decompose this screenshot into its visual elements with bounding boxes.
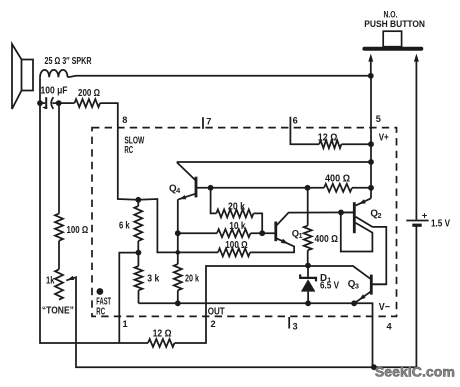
svg-text:6 k: 6 k <box>119 221 130 232</box>
svg-text:1: 1 <box>299 232 303 240</box>
svg-text:1k: 1k <box>46 275 55 286</box>
svg-text:+: + <box>422 210 428 221</box>
svg-text:400 Ω: 400 Ω <box>325 173 350 184</box>
svg-text:1.5 V: 1.5 V <box>431 218 450 229</box>
svg-text:PUSH BUTTON: PUSH BUTTON <box>364 19 425 29</box>
svg-text:10 k: 10 k <box>229 221 246 232</box>
svg-text:6: 6 <box>293 116 298 126</box>
svg-text:12 Ω: 12 Ω <box>318 132 338 143</box>
svg-text:100 Ω: 100 Ω <box>225 240 247 251</box>
svg-text:12 Ω: 12 Ω <box>153 328 172 339</box>
svg-text:100 μF: 100 μF <box>41 85 68 96</box>
svg-text:“TONE”: “TONE” <box>42 305 74 316</box>
svg-text:5: 5 <box>376 114 381 124</box>
svg-text:RC: RC <box>96 306 105 317</box>
svg-text:V+: V+ <box>379 133 389 144</box>
svg-text:3: 3 <box>355 282 359 291</box>
svg-text:RC: RC <box>124 145 133 156</box>
svg-text:20 k: 20 k <box>228 201 245 212</box>
svg-text:8: 8 <box>122 115 127 125</box>
svg-text:3: 3 <box>293 321 298 331</box>
svg-text:6.5 V: 6.5 V <box>320 280 339 291</box>
svg-text:N.O.: N.O. <box>384 9 398 19</box>
svg-text:25 Ω 3″ SPKR: 25 Ω 3″ SPKR <box>45 56 92 67</box>
svg-text:SeekIC.com: SeekIC.com <box>375 364 455 380</box>
svg-text:4: 4 <box>387 321 393 331</box>
svg-text:400 Ω: 400 Ω <box>315 234 339 245</box>
svg-text:V−: V− <box>379 302 390 313</box>
svg-text:7: 7 <box>206 117 211 127</box>
svg-text:20 k: 20 k <box>185 274 199 285</box>
svg-text:1: 1 <box>123 319 128 329</box>
svg-text:2: 2 <box>378 211 382 220</box>
svg-text:3 k: 3 k <box>147 274 159 285</box>
svg-text:100 Ω: 100 Ω <box>67 225 89 236</box>
svg-text:OUT: OUT <box>208 307 225 318</box>
svg-text:200 Ω: 200 Ω <box>78 88 100 99</box>
svg-text:2: 2 <box>211 319 216 329</box>
